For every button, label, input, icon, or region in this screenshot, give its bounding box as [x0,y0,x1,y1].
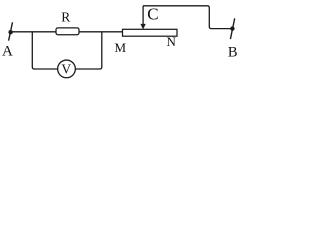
terminal A (dot with diagonal clip stroke) [8,22,12,40]
wire: main top wire from terminal A to rheostat M end [11,31,123,33]
svg-text:C: C [147,5,158,24]
resistor R [56,28,79,35]
svg-text:R: R [61,9,70,24]
slider wiper arrow at C [140,6,145,30]
svg-text:B: B [228,44,238,60]
svg-text:V: V [61,62,71,77]
svg-text:M: M [115,40,127,55]
wire: slider top wire to right side and down to terminal B [143,6,230,29]
svg-text:A: A [2,43,13,59]
wire: right junction vertical down to voltmeter loop [76,32,102,69]
voltmeter U1 (circle) [58,60,76,78]
terminal B (dot with diagonal clip stroke) [230,18,235,39]
svg-text:N: N [167,34,177,49]
wire: left junction vertical down to voltmeter loop [32,32,57,69]
rheostat resistive bar M-N [123,29,178,36]
